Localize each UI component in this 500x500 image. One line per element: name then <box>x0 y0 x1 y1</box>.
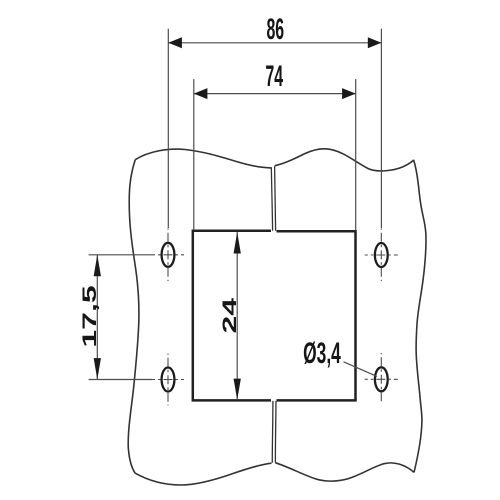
svg-text:74: 74 <box>265 60 283 94</box>
svg-text:86: 86 <box>266 13 284 47</box>
svg-text:Ø3,4: Ø3,4 <box>303 337 341 370</box>
svg-text:17,5: 17,5 <box>79 285 101 347</box>
svg-text:24: 24 <box>219 298 241 334</box>
